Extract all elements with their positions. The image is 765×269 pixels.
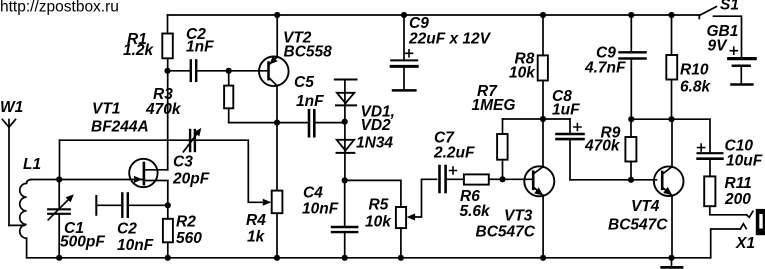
resistor R9 470k <box>584 119 636 180</box>
node R8/R7/C8/VT3 <box>540 116 546 122</box>
svg-text:BC558: BC558 <box>284 44 333 61</box>
node C4 bottom <box>342 255 348 261</box>
node R10 rail <box>668 12 674 18</box>
wire VT3 collector <box>542 119 544 167</box>
svg-text:10nF: 10nF <box>117 237 154 254</box>
svg-text:C4: C4 <box>303 185 323 202</box>
svg-text:560: 560 <box>176 230 202 247</box>
node VT4 emitter / ground <box>668 255 674 261</box>
svg-text:470k: 470k <box>145 101 182 118</box>
svg-text:1nF: 1nF <box>186 39 214 56</box>
svg-text:R2: R2 <box>176 214 196 231</box>
capacitor C5 1nF <box>294 74 345 136</box>
capacitor C9 22uF x 12V <box>391 15 491 90</box>
capacitor C7 2.2uF <box>433 130 475 193</box>
svg-text:R10: R10 <box>680 62 709 79</box>
node R5 bottom <box>398 255 404 261</box>
potentiometer R4 1k <box>246 123 282 258</box>
node C9 rail <box>628 12 634 18</box>
svg-text:http://zpostbox.ru: http://zpostbox.ru <box>0 0 119 16</box>
wire R1 to VT1 drain <box>167 58 169 170</box>
wire antenna tap <box>9 224 25 226</box>
svg-text:10k: 10k <box>509 65 536 82</box>
wire tank top (gate line) <box>32 179 143 181</box>
svg-text:5.6k: 5.6k <box>460 203 492 220</box>
resistor R11 200 <box>704 175 752 208</box>
wire VT4 base line <box>570 179 657 181</box>
svg-text:BC547C: BC547C <box>608 217 668 234</box>
svg-text:470k: 470k <box>584 138 621 155</box>
capacitor C8 1uF <box>543 88 584 180</box>
wire bottom rail <box>27 257 711 259</box>
svg-text:C2: C2 <box>117 221 137 238</box>
svg-text:20pF: 20pF <box>172 171 210 188</box>
node C2/R3/base <box>226 68 232 74</box>
wire VT2 collector down <box>276 86 278 123</box>
capacitor C2 10nF <box>96 193 168 254</box>
svg-text:9V: 9V <box>708 38 729 55</box>
svg-text:L1: L1 <box>23 156 41 173</box>
svg-text:VT3: VT3 <box>504 208 533 225</box>
node R4 bottom <box>274 255 280 261</box>
node C1 bottom <box>56 255 62 261</box>
wire collector node line <box>631 118 710 120</box>
capacitor C3 20pF (variable) <box>172 128 210 188</box>
resistor R6 5.6k <box>447 174 503 220</box>
svg-text:22uF x 12V: 22uF x 12V <box>408 31 492 48</box>
svg-text:1N34: 1N34 <box>356 135 393 152</box>
wire VT4 collector <box>671 119 673 167</box>
resistor R2 560 <box>163 205 202 257</box>
svg-text:1MEG: 1MEG <box>472 97 516 114</box>
wire top rail <box>168 14 700 16</box>
svg-text:C3: C3 <box>173 154 193 171</box>
capacitor C4 10nF <box>302 180 357 257</box>
svg-text:VT4: VT4 <box>631 198 660 215</box>
ground <box>662 258 682 268</box>
node R8 rail <box>540 12 546 18</box>
battery GB1 9V <box>707 16 756 84</box>
svg-text:4.7nF: 4.7nF <box>584 60 626 77</box>
diode VD1 1N34 <box>335 80 395 152</box>
node collector/C5/R4 <box>274 120 280 126</box>
node VD2/C4/R5 <box>342 177 348 183</box>
wire VD2 node to R5 <box>345 180 401 207</box>
node C9/R9 <box>628 116 634 122</box>
svg-text:10nF: 10nF <box>302 201 339 218</box>
capacitor C2 1nF <box>168 26 229 81</box>
potentiometer R5 10k <box>365 197 415 258</box>
antenna W1 <box>0 99 23 225</box>
resistor R8 10k <box>509 15 548 119</box>
svg-text:10k: 10k <box>365 214 392 231</box>
transistor VT4 BC547C (NPN) <box>608 166 684 257</box>
diode VD2 1N34 <box>337 122 355 181</box>
svg-text:R11: R11 <box>725 175 752 192</box>
svg-text:R5: R5 <box>369 197 389 214</box>
capacitor C10 10uF <box>698 119 763 176</box>
svg-text:W1: W1 <box>0 99 23 116</box>
svg-text:1nF: 1nF <box>296 93 324 110</box>
svg-text:500pF: 500pF <box>60 234 105 251</box>
svg-text:200: 200 <box>724 191 751 208</box>
jack X1 <box>710 206 765 258</box>
svg-text:BC547C: BC547C <box>476 224 536 241</box>
wire C3 feedback line <box>60 140 265 202</box>
inductor L1 <box>20 156 41 258</box>
svg-text:S1: S1 <box>720 0 739 14</box>
node R10/VT4 collector <box>668 116 674 122</box>
node R1/C2 <box>164 68 170 74</box>
node VT3 emitter <box>540 255 546 261</box>
wire R3 to C5 <box>229 122 308 124</box>
svg-text:VD2: VD2 <box>361 117 392 134</box>
node VD1/VD2/C5 <box>342 119 348 125</box>
resistor R10 6.8k <box>666 15 711 119</box>
resistor R3 470k <box>145 71 233 123</box>
transistor VT2 BC558 (PNP) <box>259 15 332 86</box>
wire VT1 source down <box>167 181 169 206</box>
wire gate node to C3 line <box>59 140 61 179</box>
node C1/gate <box>56 176 62 182</box>
svg-text:1k: 1k <box>247 229 266 246</box>
resistor R1 1.2k <box>123 15 173 59</box>
svg-text:BF244A: BF244A <box>91 119 149 136</box>
transistor VT1 BF244A (JFET) <box>91 101 168 188</box>
svg-text:6.8k: 6.8k <box>680 79 712 96</box>
svg-text:2.2uF: 2.2uF <box>433 145 475 162</box>
svg-text:1uF: 1uF <box>552 102 580 119</box>
capacitor C9 4.7nF <box>584 15 646 119</box>
node R6/R7/VT3 base <box>499 176 505 182</box>
node VT2 emitter / rail <box>274 12 280 18</box>
capacitor C1 500pF (variable) <box>48 180 105 258</box>
wire VT2 base <box>229 70 268 72</box>
node R2 bottom <box>165 255 171 261</box>
switch S1 <box>699 0 739 19</box>
wire R5 wiper to C7 <box>414 179 437 217</box>
wire VT3 base <box>503 178 534 180</box>
resistor R7 1MEG <box>472 83 516 179</box>
svg-text:X1: X1 <box>735 235 755 252</box>
node R9 bottom <box>628 177 634 183</box>
svg-text:VT1: VT1 <box>92 101 120 118</box>
node VT1 source / C2 / R2 <box>165 202 171 208</box>
svg-text:10uF: 10uF <box>726 153 763 170</box>
wire R7 to collector node <box>503 118 544 120</box>
svg-text:C5: C5 <box>294 74 314 91</box>
svg-text:R4: R4 <box>246 212 266 229</box>
svg-text:C9: C9 <box>409 15 429 32</box>
node C9 22uF rail <box>401 12 407 18</box>
svg-text:1.2k: 1.2k <box>123 42 155 59</box>
transistor VT3 BC547C (NPN) <box>476 166 555 257</box>
